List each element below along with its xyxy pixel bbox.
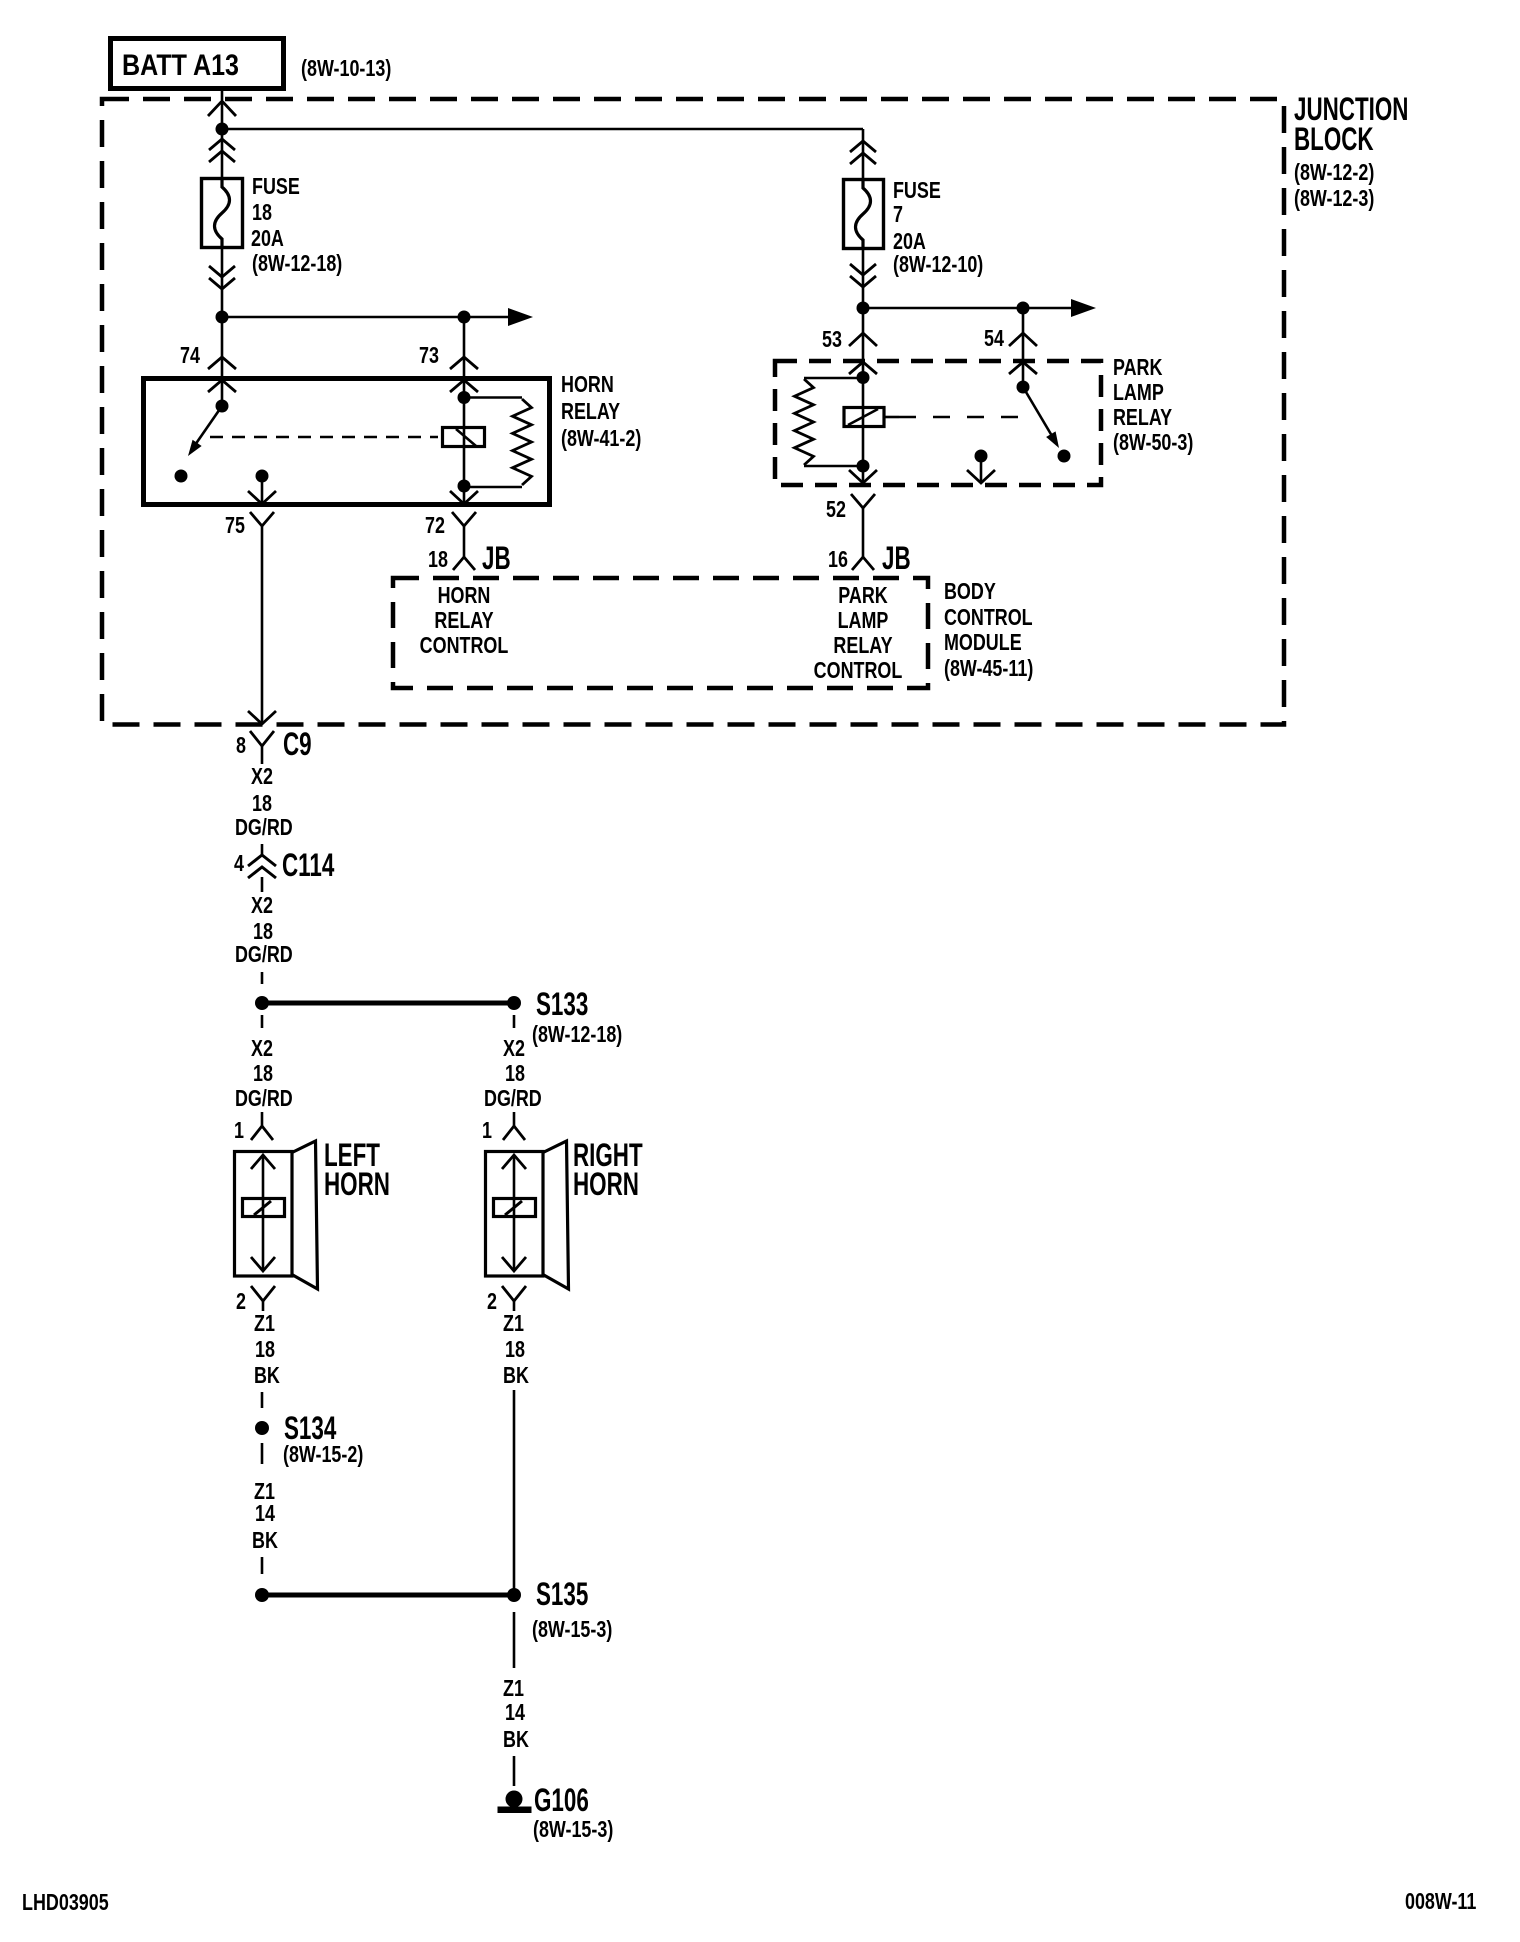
svg-text:Z1: Z1 [254,1311,275,1337]
svg-text:RELAY: RELAY [1113,405,1172,431]
svg-text:14: 14 [255,1501,275,1527]
svg-text:53: 53 [822,327,842,353]
svg-text:X2: X2 [251,893,273,919]
svg-text:BK: BK [254,1363,280,1389]
svg-text:BK: BK [252,1528,278,1554]
svg-text:(8W-12-18): (8W-12-18) [252,251,342,277]
svg-text:4: 4 [234,851,244,877]
svg-text:52: 52 [826,497,846,523]
svg-text:(8W-12-2): (8W-12-2) [1294,160,1374,186]
svg-text:RELAY: RELAY [833,633,892,659]
svg-text:BATT A13: BATT A13 [122,48,239,81]
svg-text:X2: X2 [503,1036,525,1062]
svg-text:CONTROL: CONTROL [420,633,509,659]
svg-text:X2: X2 [251,1036,273,1062]
svg-text:54: 54 [984,326,1004,352]
svg-text:(8W-41-2): (8W-41-2) [561,426,641,452]
svg-text:18: 18 [252,791,272,817]
svg-text:C9: C9 [283,726,312,762]
svg-text:CONTROL: CONTROL [944,605,1033,631]
svg-text:2: 2 [236,1289,246,1315]
svg-text:S133: S133 [536,986,588,1022]
svg-text:LAMP: LAMP [838,608,889,634]
svg-text:72: 72 [425,513,445,539]
svg-text:S134: S134 [284,1410,337,1446]
svg-text:DG/RD: DG/RD [235,815,293,841]
svg-text:18: 18 [253,1061,273,1087]
svg-text:PARK: PARK [838,583,888,609]
svg-text:LHD03905: LHD03905 [22,1890,109,1916]
svg-text:2: 2 [487,1289,497,1315]
svg-text:FUSE: FUSE [252,174,300,200]
svg-text:(8W-50-3): (8W-50-3) [1113,430,1193,456]
svg-text:Z1: Z1 [503,1676,524,1702]
svg-text:BODY: BODY [944,579,996,605]
svg-text:BLOCK: BLOCK [1294,121,1374,157]
svg-text:RELAY: RELAY [561,399,620,425]
svg-text:(8W-15-2): (8W-15-2) [283,1442,363,1468]
svg-text:16: 16 [828,547,848,573]
svg-text:HORN: HORN [438,583,491,609]
svg-text:S135: S135 [536,1576,588,1612]
svg-text:(8W-10-13): (8W-10-13) [301,56,391,82]
svg-text:18: 18 [428,547,448,573]
svg-text:MODULE: MODULE [944,630,1022,656]
svg-text:73: 73 [419,343,439,369]
svg-text:(8W-15-3): (8W-15-3) [533,1817,613,1843]
svg-text:1: 1 [234,1118,244,1144]
svg-text:18: 18 [505,1061,525,1087]
svg-text:18: 18 [255,1337,275,1363]
svg-text:(8W-12-3): (8W-12-3) [1294,186,1374,212]
svg-text:75: 75 [225,513,245,539]
svg-text:BK: BK [503,1363,529,1389]
svg-text:JB: JB [482,540,511,576]
svg-text:DG/RD: DG/RD [235,1086,293,1112]
svg-text:18: 18 [505,1337,525,1363]
svg-text:HORN: HORN [324,1166,390,1202]
svg-text:8: 8 [236,733,246,759]
svg-text:20A: 20A [893,229,926,255]
svg-text:CONTROL: CONTROL [814,658,903,684]
svg-text:(8W-45-11): (8W-45-11) [944,656,1033,682]
svg-text:C114: C114 [282,847,335,883]
svg-text:18: 18 [253,919,273,945]
svg-text:PARK: PARK [1113,355,1163,381]
svg-text:G106: G106 [534,1782,589,1818]
svg-text:Z1: Z1 [503,1311,524,1337]
svg-text:1: 1 [482,1118,492,1144]
svg-text:FUSE: FUSE [893,178,941,204]
svg-text:7: 7 [893,202,903,228]
svg-text:14: 14 [505,1700,525,1726]
svg-text:X2: X2 [251,764,273,790]
svg-text:(8W-12-10): (8W-12-10) [893,252,983,278]
svg-text:18: 18 [252,200,272,226]
svg-text:20A: 20A [251,226,284,252]
svg-text:RELAY: RELAY [434,608,493,634]
svg-text:HORN: HORN [573,1166,639,1202]
svg-text:LAMP: LAMP [1113,380,1164,406]
svg-text:008W-11: 008W-11 [1405,1889,1476,1915]
svg-text:(8W-12-18): (8W-12-18) [532,1022,622,1048]
svg-text:DG/RD: DG/RD [484,1086,542,1112]
svg-text:BK: BK [503,1727,529,1753]
svg-text:74: 74 [180,343,200,369]
svg-text:HORN: HORN [561,372,614,398]
svg-text:(8W-15-3): (8W-15-3) [532,1617,612,1643]
svg-text:DG/RD: DG/RD [235,942,293,968]
svg-text:JB: JB [882,540,911,576]
